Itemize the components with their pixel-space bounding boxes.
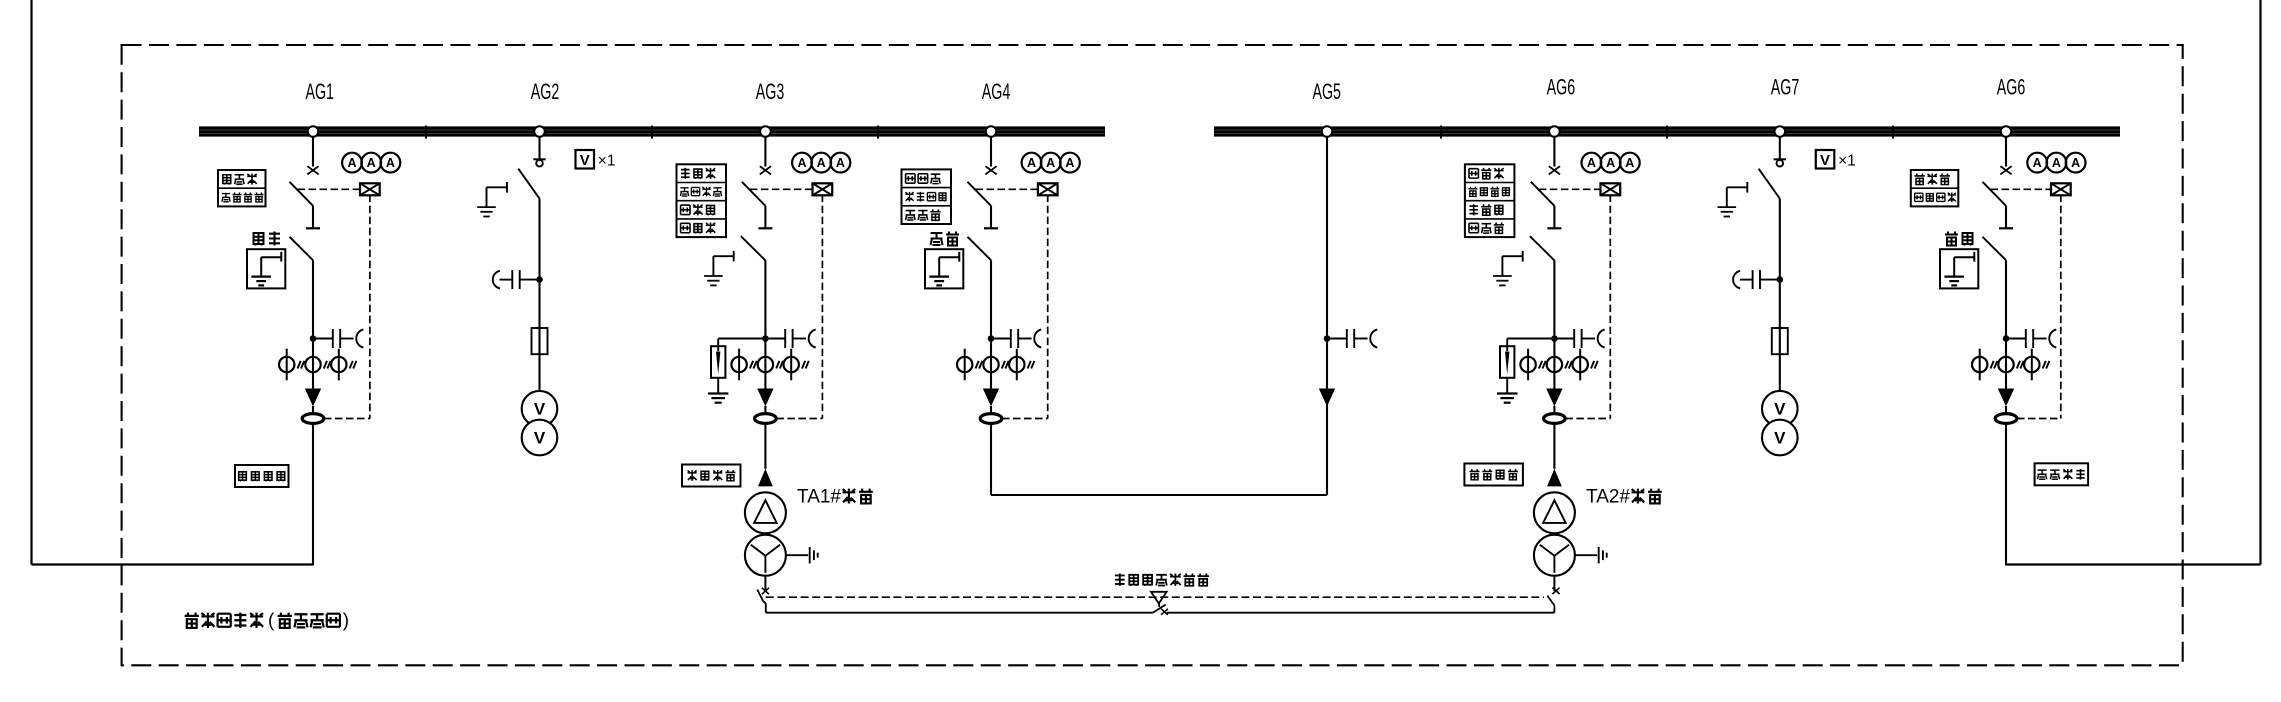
svg-text:(: (	[268, 611, 275, 632]
svg-text:AG6: AG6	[1547, 75, 1576, 100]
svg-text:V: V	[1774, 400, 1786, 419]
svg-text:A: A	[367, 156, 376, 170]
svg-text:V: V	[534, 428, 546, 447]
svg-text:AG6: AG6	[1997, 75, 2026, 100]
svg-text:AG4: AG4	[982, 79, 1011, 104]
svg-text:TA2#: TA2#	[1586, 487, 1630, 508]
svg-text:A: A	[797, 156, 806, 170]
svg-text:A: A	[386, 156, 395, 170]
svg-text:A: A	[1606, 156, 1615, 170]
svg-text:TA1#: TA1#	[797, 487, 841, 508]
svg-text:A: A	[817, 156, 826, 170]
svg-text:×1: ×1	[1838, 153, 1856, 170]
svg-text:A: A	[836, 156, 845, 170]
svg-text:V: V	[1820, 152, 1830, 169]
svg-text:A: A	[2033, 156, 2042, 170]
svg-text:AG3: AG3	[756, 79, 785, 104]
svg-text:AG1: AG1	[305, 79, 334, 104]
svg-text:A: A	[1587, 156, 1596, 170]
svg-text:A: A	[1065, 156, 1074, 170]
svg-text:AG2: AG2	[531, 79, 560, 104]
svg-text:V: V	[1774, 428, 1786, 447]
svg-text:A: A	[1625, 156, 1634, 170]
svg-text:×1: ×1	[598, 153, 616, 170]
svg-text:A: A	[2071, 156, 2080, 170]
svg-text:V: V	[580, 152, 590, 169]
svg-text:AG5: AG5	[1312, 79, 1341, 104]
svg-text:AG7: AG7	[1771, 75, 1800, 100]
svg-text:A: A	[1027, 156, 1036, 170]
svg-text:V: V	[534, 400, 546, 419]
svg-text:A: A	[347, 156, 356, 170]
svg-text:A: A	[1046, 156, 1055, 170]
svg-text:A: A	[2052, 156, 2061, 170]
svg-text:): )	[343, 611, 349, 632]
